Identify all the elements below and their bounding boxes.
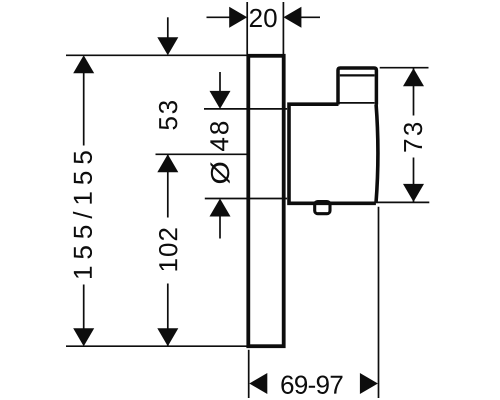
dim 20: right tail: [301, 16, 321, 18]
dim 73: bottom arrowhead (pointing down): [403, 184, 424, 202]
top reference line (plate top level): [66, 54, 247, 56]
dim 102: label: [159, 228, 178, 270]
dim 53: top arrow tail: [167, 17, 169, 38]
dim 102: bottom arrowhead (pointing down): [157, 328, 178, 346]
dim Ø48: bottom arrowhead (pointing up): [210, 199, 231, 217]
dim 69-97: right arrowhead (pointing right): [360, 373, 378, 394]
dim 69-97: right extension line: [378, 207, 380, 398]
dim 20: left extension line: [246, 2, 248, 54]
dim 20: label: [250, 9, 277, 28]
dim 20: right arrowhead: [283, 7, 301, 28]
dim Ø48: label 48: [210, 122, 229, 151]
dim 73: top arrowhead (pointing up): [403, 68, 424, 86]
dim 155/155: bottom arrowhead: [73, 328, 94, 346]
dim 69-97: label: [281, 375, 342, 394]
dim 69-97: left arrowhead (pointing left): [249, 373, 267, 394]
dim 69-97: left extension line: [248, 350, 250, 398]
dim 73: bottom extension line: [375, 201, 429, 203]
Ø48 top reference line: [204, 108, 287, 110]
dim Ø48: label diameter sign: [210, 162, 229, 183]
dim 73: top extension line: [380, 67, 429, 69]
body top edge under cap: [338, 102, 375, 104]
wall plate (side view): [248, 56, 283, 346]
dim 155/155: top arrowhead: [73, 55, 94, 73]
dim 73: dimension line: [413, 68, 415, 202]
dim 102: top arrowhead (pointing up): [157, 154, 178, 172]
bottom reference line (plate bottom level): [66, 345, 247, 347]
dim Ø48: bottom arrow tail: [219, 216, 221, 239]
dim 73: label: [404, 123, 423, 152]
valve body outline: [289, 104, 376, 203]
dim 53: top arrowhead (pointing down): [157, 37, 178, 55]
dim 20: left tail: [207, 16, 231, 18]
cap on top of body: [338, 68, 376, 105]
dim 155/155: label: [73, 151, 92, 278]
valve body right edge (bulged): [376, 105, 378, 204]
Ø48 bottom reference line: [205, 198, 287, 200]
dim 102: dimension line: [167, 154, 169, 346]
dim 20: left arrowhead: [229, 7, 247, 28]
cap lip line: [340, 74, 375, 76]
dim Ø48: top arrowhead (pointing down): [210, 91, 231, 109]
dim 155/155: dimension line: [83, 57, 85, 345]
dim 20: right extension line: [282, 2, 284, 54]
dim Ø48: top arrow tail: [219, 72, 221, 92]
bottom tab: [315, 202, 330, 214]
dim 53: label: [159, 101, 178, 130]
center axis line: [156, 153, 249, 155]
